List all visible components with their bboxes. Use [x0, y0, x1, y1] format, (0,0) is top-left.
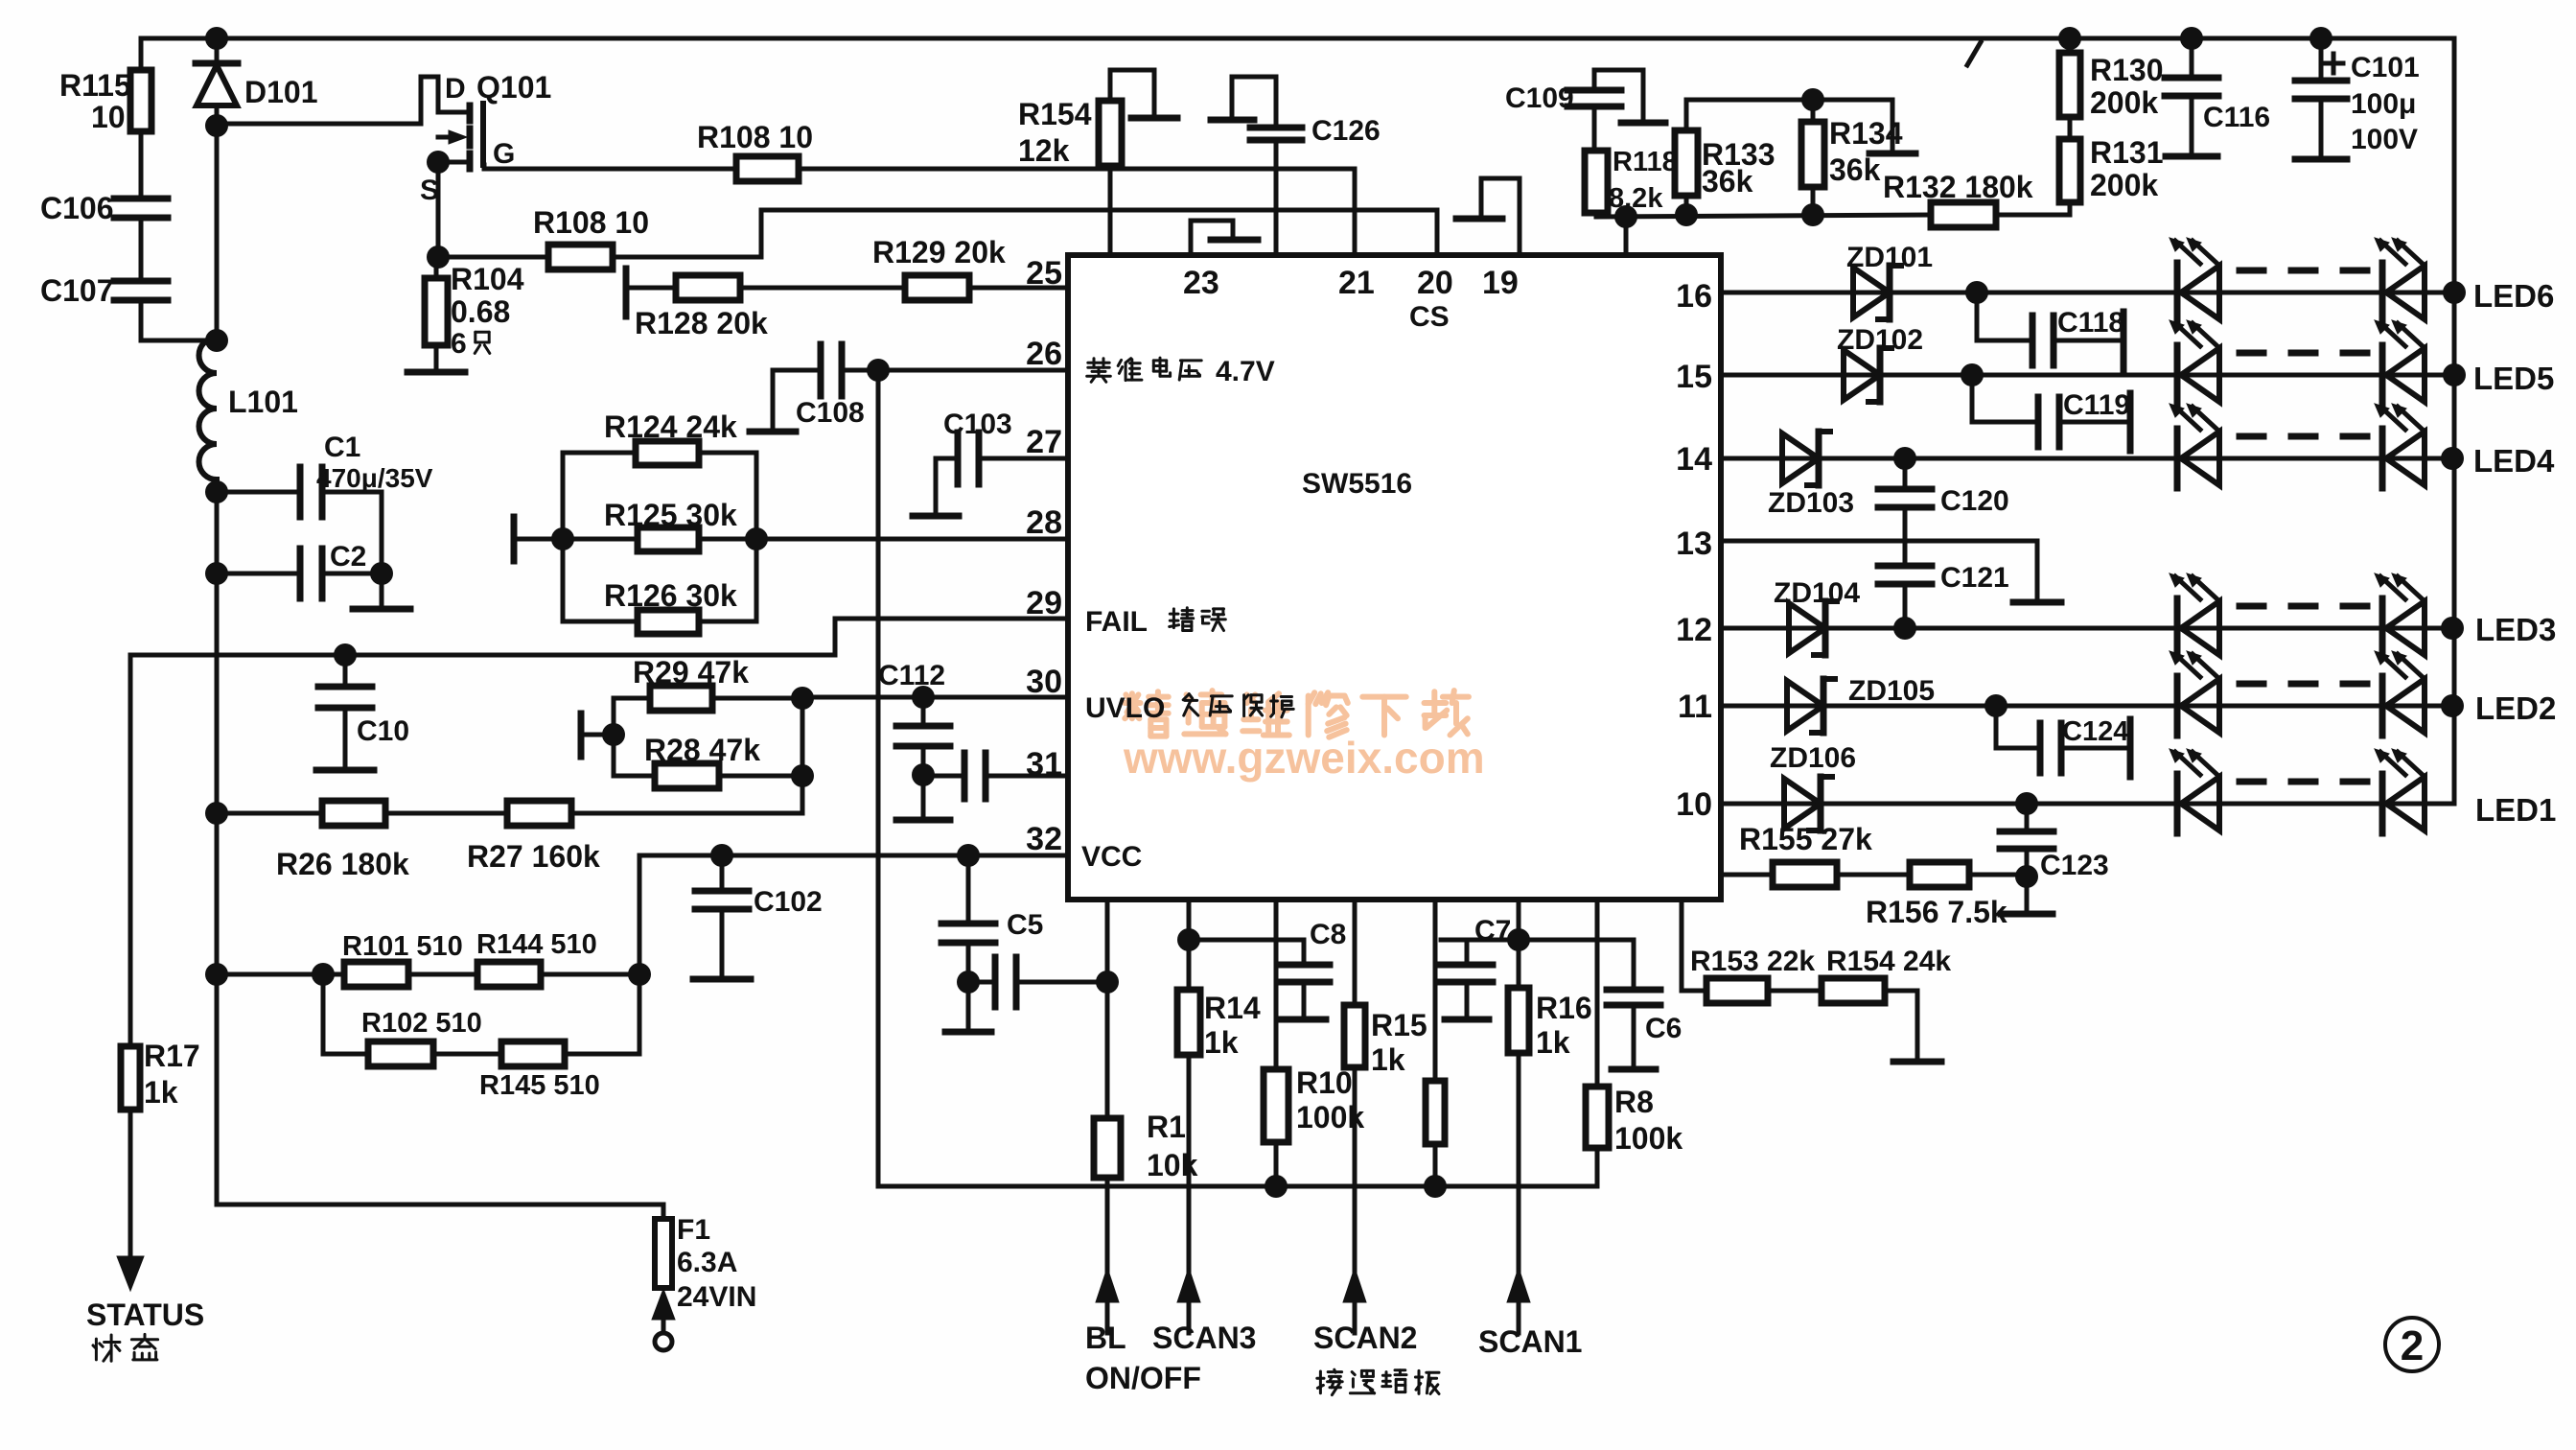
svg-text:C107: C107 [40, 273, 114, 308]
capacitor C8 [1189, 919, 1346, 1017]
resistor R115 [59, 38, 151, 199]
resistor R133 [1675, 100, 1775, 215]
capacitor C10 [318, 655, 409, 768]
pin number 25 [1026, 255, 1062, 292]
svg-text:36k: 36k [1829, 152, 1881, 187]
resistor R28 [614, 733, 802, 788]
wire R124-R126 right link [754, 453, 759, 621]
ground-bar below C103 [913, 513, 959, 520]
wire SCAN1 arrow [1507, 1053, 1530, 1333]
label BL ON/OFF [1085, 1321, 1201, 1395]
node C2 left junction [205, 562, 228, 585]
svg-text:LED5: LED5 [2473, 361, 2554, 396]
svg-text:G: G [493, 138, 515, 170]
node R130 top junction [2058, 27, 2081, 50]
capacitor C124 [1996, 706, 2130, 777]
svg-text:24VIN: 24VIN [677, 1281, 756, 1313]
svg-text:R124 24k: R124 24k [604, 409, 737, 444]
wire R101 row [217, 972, 344, 977]
wire pin 27 [979, 456, 1068, 461]
svg-text:R125 30k: R125 30k [604, 498, 737, 532]
svg-text:SCAN3: SCAN3 [1152, 1321, 1256, 1355]
zener ZD103 [1768, 432, 1854, 519]
svg-text:C118: C118 [2057, 307, 2124, 339]
capacitor C103 [936, 409, 1012, 514]
svg-text:BL: BL [1085, 1321, 1126, 1355]
wire R17 to STATUS arrow [117, 1110, 144, 1291]
node LED6 row junction at C118 [1965, 281, 1988, 304]
node LED3 bus junction [2441, 617, 2464, 640]
node C112 top junction [912, 686, 935, 709]
resistor R124 [563, 409, 756, 465]
svg-text:200k: 200k [2090, 168, 2158, 202]
terminal stub left of R28 [581, 713, 614, 757]
svg-text:SCAN2: SCAN2 [1313, 1321, 1417, 1355]
svg-text:R15: R15 [1371, 1008, 1427, 1042]
svg-text:R8: R8 [1614, 1085, 1654, 1119]
wire pin 28 [756, 537, 1068, 542]
resistor R126 [563, 578, 756, 634]
wire SCAN2 arrow [1343, 1067, 1366, 1333]
resistor R130 [2059, 38, 2164, 120]
svg-text:2: 2 [2401, 1322, 2424, 1369]
capacitor C7 [1441, 915, 1519, 1017]
label SCAN2 [1313, 1321, 1439, 1395]
wire C1-C2 right to ground [380, 492, 384, 607]
svg-text:CS: CS [1409, 301, 1450, 333]
label CS [1409, 301, 1450, 333]
dashed link LED3 [2239, 603, 2368, 610]
diode D101 [196, 38, 318, 340]
resistor R156 [1837, 862, 2027, 929]
svg-text:C103: C103 [943, 409, 1012, 440]
svg-text:R130: R130 [2090, 53, 2164, 87]
svg-text:C8: C8 [1310, 919, 1346, 950]
pin number 14 [1676, 441, 1712, 478]
node LED2 row junction at C124 [1984, 694, 2007, 717]
svg-text:21: 21 [1338, 265, 1375, 301]
wire R10 pin [1274, 900, 1279, 1069]
svg-text:C116: C116 [2203, 102, 2270, 133]
ground-bar below C123 [2001, 911, 2053, 918]
svg-text:SCAN1: SCAN1 [1478, 1324, 1582, 1359]
svg-text:10: 10 [1676, 786, 1712, 823]
svg-text:C121: C121 [1940, 562, 2009, 594]
svg-text:C120: C120 [1940, 485, 2009, 517]
LED string LED2 left [2170, 651, 2219, 736]
svg-text:20: 20 [1417, 265, 1453, 301]
dashed link LED1 [2239, 779, 2368, 785]
resistor R144 [408, 929, 639, 987]
LED string LED2 right [2375, 651, 2425, 736]
wire D101 to Q101 drain [217, 77, 467, 124]
svg-text:31: 31 [1026, 746, 1062, 783]
pin number 12 [1676, 612, 1712, 648]
node R144 right junction [628, 963, 651, 986]
svg-text:R131: R131 [2090, 135, 2164, 170]
svg-text:ZD105: ZD105 [1848, 675, 1935, 707]
ground-bar below C112 [896, 817, 950, 824]
LED string LED4 left [2170, 404, 2219, 488]
dashed link LED6 [2239, 268, 2368, 274]
svg-text:26: 26 [1026, 336, 1062, 372]
resistor R153 [1682, 900, 1815, 1003]
label UVLO [1085, 692, 1293, 724]
node R26 left junction [205, 802, 228, 825]
svg-text:R156 7.5k: R156 7.5k [1866, 895, 2007, 929]
svg-text:12: 12 [1676, 612, 1712, 648]
svg-text:R102 510: R102 510 [361, 1008, 482, 1039]
capacitor pin 31 coupling [923, 753, 1068, 799]
resistor R27 [385, 801, 802, 874]
node D101 cathode junction [205, 114, 228, 137]
ground-bar below R154 (lower) [1893, 1059, 1941, 1065]
wire pin 26 [842, 368, 1068, 373]
capacitor C106 [40, 191, 168, 281]
dashed link LED5 [2239, 350, 2368, 357]
svg-text:1k: 1k [1536, 1025, 1570, 1060]
resistor R132 [1883, 170, 2070, 227]
transistor Q101 [420, 70, 551, 206]
svg-text:470μ/35V: 470μ/35V [316, 463, 433, 493]
capacitor C1 [217, 432, 433, 517]
svg-text:19: 19 [1482, 265, 1519, 301]
label SCAN3 [1152, 1321, 1256, 1355]
svg-text:C108: C108 [796, 397, 865, 429]
node L101 top junction [205, 329, 228, 352]
svg-text:ZD103: ZD103 [1768, 487, 1854, 519]
wire VCC net (pin 32) [639, 855, 1068, 974]
pin number 30 [1026, 664, 1062, 700]
wire mid resistor pin [1433, 900, 1438, 1081]
ground-bar below C102 [693, 976, 751, 983]
svg-text:C5: C5 [1007, 909, 1043, 941]
svg-text:C109: C109 [1505, 82, 1574, 114]
ground-bar pin 13 [2013, 599, 2061, 606]
capacitor C6 [1519, 940, 1682, 1067]
pin number 26 [1026, 336, 1062, 372]
svg-text:R28 47k: R28 47k [644, 733, 760, 767]
resistor R15 [1344, 1005, 1427, 1077]
wire pin 25 [969, 286, 1068, 291]
svg-text:R14: R14 [1204, 991, 1261, 1025]
svg-text:R101 510: R101 510 [342, 931, 463, 962]
pin number 28 [1026, 504, 1062, 541]
label LED1 [2475, 792, 2556, 828]
svg-text:0.68: 0.68 [451, 294, 510, 329]
svg-text:R154: R154 [1018, 97, 1092, 131]
svg-text:R155 27k: R155 27k [1739, 822, 1872, 856]
LED string LED6 left [2170, 238, 2219, 322]
svg-text:8.2k: 8.2k [1609, 183, 1663, 214]
zener ZD106 [1770, 742, 1856, 830]
svg-text:LED3: LED3 [2475, 612, 2556, 647]
svg-text:12k: 12k [1018, 133, 1070, 168]
svg-text:R16: R16 [1536, 991, 1592, 1025]
wire pin 13 to ground [1721, 541, 2037, 600]
resistor R10 [1264, 1065, 1364, 1186]
svg-text:R115: R115 [59, 68, 131, 103]
svg-text:6: 6 [451, 328, 467, 360]
svg-text:R108 10: R108 10 [533, 205, 649, 240]
svg-text:F1: F1 [677, 1214, 710, 1246]
node Q101 source junction [427, 151, 450, 174]
node C2 right junction [370, 562, 393, 585]
wire pin 15 / LED5 row [1721, 373, 2454, 378]
svg-text:4.7V: 4.7V [1216, 356, 1275, 387]
ground-bar below C5 [945, 1029, 991, 1036]
wire right LED bus [2452, 38, 2457, 804]
svg-text:VCC: VCC [1081, 841, 1142, 873]
node R101 bus junction [205, 963, 228, 986]
capacitor C109 [1505, 70, 1665, 151]
svg-text:R129 20k: R129 20k [872, 235, 1006, 269]
zener ZD102 [1837, 324, 1923, 402]
LED string LED6 right [2375, 238, 2425, 322]
pin number 19 [1482, 265, 1519, 301]
node C102 junction [710, 844, 733, 867]
terminal stub pin 23 [1191, 221, 1258, 255]
zener ZD104 [1774, 577, 1860, 655]
node LED4 bus junction [2441, 447, 2464, 470]
node C123 bottom junction [2015, 865, 2038, 888]
svg-text:1k: 1k [1371, 1042, 1405, 1077]
svg-text:C112: C112 [878, 660, 945, 691]
pin number 23 [1183, 265, 1219, 301]
node LED2 bus junction [2441, 694, 2464, 717]
resistor R102 [323, 974, 482, 1066]
svg-text:C119: C119 [2063, 389, 2130, 421]
svg-text:R126 30k: R126 30k [604, 578, 737, 613]
node C112 bottom junction [912, 763, 935, 786]
wire top supply bus [141, 36, 2454, 41]
capacitor C116 [2165, 38, 2270, 154]
wire center vertical bus [876, 370, 881, 1186]
ground-bar below C6 [1612, 1066, 1656, 1073]
svg-text:R144 510: R144 510 [476, 929, 597, 960]
label SCAN1 [1478, 1324, 1582, 1359]
svg-text:C123: C123 [2040, 850, 2109, 881]
svg-text:C6: C6 [1645, 1013, 1682, 1044]
node R101 left junction [312, 963, 335, 986]
wire SCAN1 pin [1517, 900, 1521, 988]
resistor R101 [342, 931, 463, 987]
svg-text:C126: C126 [1311, 115, 1381, 147]
svg-text:15: 15 [1676, 359, 1712, 395]
svg-text:ZD101: ZD101 [1846, 242, 1933, 273]
resistor R14 [1177, 990, 1261, 1060]
node LED6 bus junction [2443, 281, 2466, 304]
label LED4 [2473, 443, 2555, 479]
LED string LED1 right [2375, 749, 2425, 833]
wire left bus down [217, 492, 663, 1204]
node C116 top junction [2180, 27, 2203, 50]
node R118 bottom junction [1614, 205, 1637, 228]
capacitor C119 [1972, 375, 2130, 451]
resistor R8 [1586, 1085, 1683, 1186]
wire R124-R126 left link [561, 453, 566, 621]
svg-text:www.gzweix.com: www.gzweix.com [1123, 733, 1485, 783]
label FAIL [1085, 606, 1225, 638]
svg-text:16: 16 [1676, 278, 1712, 315]
svg-text:C101: C101 [2351, 52, 2420, 83]
pin number 20 [1417, 265, 1453, 301]
svg-text:LED4: LED4 [2473, 443, 2555, 479]
svg-text:SW5516: SW5516 [1302, 468, 1412, 500]
label VCC [1081, 841, 1142, 873]
resistor R118 [1585, 147, 1678, 217]
svg-text:36k: 36k [1702, 164, 1753, 199]
node R125 left junction [551, 527, 574, 550]
svg-text:R104: R104 [451, 262, 524, 296]
svg-text:11: 11 [1678, 689, 1712, 725]
svg-text:R27 160k: R27 160k [467, 839, 600, 874]
wire pin 10 / LED1 row [1721, 802, 2454, 807]
wire pin 16 / LED6 row [1721, 291, 2454, 295]
svg-text:D: D [445, 73, 466, 105]
dashed link LED4 [2239, 433, 2368, 440]
node C5 lower junction [957, 971, 980, 994]
node R29 right junction [791, 687, 814, 710]
terminal stub left of R128 [626, 269, 676, 316]
node C1 left junction [205, 480, 228, 503]
svg-text:200k: 200k [2090, 85, 2158, 120]
svg-text:ZD102: ZD102 [1837, 324, 1923, 356]
svg-text:LED6: LED6 [2473, 278, 2554, 314]
pin number 16 [1676, 278, 1712, 315]
pin number 13 [1676, 526, 1712, 562]
capacitor C5 [941, 855, 1043, 1030]
wire BL arrow [1096, 1186, 1119, 1333]
LED string LED4 right [2375, 404, 2425, 488]
svg-text:23: 23 [1183, 265, 1219, 301]
pin number 32 [1026, 821, 1062, 857]
node R28-R29 input junction [602, 723, 625, 746]
node bus junction mid resistor [1424, 1175, 1447, 1198]
ground below C2 [353, 606, 410, 613]
wire SCAN3 pin [1187, 900, 1192, 990]
resistor R26 [217, 801, 409, 881]
resistor R125 [563, 498, 756, 551]
svg-text:R26 180k: R26 180k [276, 847, 409, 881]
wire pin 30 (UVLO) [802, 695, 1068, 700]
wire bottom ground bus [878, 1184, 1597, 1189]
LED string LED5 right [2375, 320, 2425, 405]
resistor R145 [433, 974, 639, 1101]
resistor R108 (gate) [697, 120, 813, 181]
ground below R104 [407, 369, 465, 376]
wire pin 14 / LED4 row [1721, 456, 2454, 461]
node top bus junction at D101 [205, 27, 228, 50]
fuse F1 [652, 1204, 756, 1350]
svg-text:28: 28 [1026, 504, 1062, 541]
label reference voltage 4.7V [1087, 356, 1275, 387]
ground-bar below C116 [2166, 153, 2217, 160]
svg-text:6.3A: 6.3A [677, 1247, 737, 1278]
ground-bar below C108 [750, 429, 796, 435]
svg-text:1k: 1k [144, 1075, 178, 1110]
resistor R17 [121, 1039, 200, 1110]
wire BL pin [1105, 900, 1110, 1118]
page number 2 circled [2385, 1318, 2439, 1371]
watermark text [1123, 690, 1485, 783]
node C10 junction [334, 643, 357, 667]
capacitor C101 [2295, 38, 2420, 157]
svg-text:100μ: 100μ [2351, 88, 2416, 120]
svg-text:STATUS: STATUS [86, 1298, 204, 1332]
resistor R128 [635, 275, 768, 340]
ground-bar below C8 [1282, 1017, 1326, 1023]
svg-text:R1: R1 [1147, 1110, 1186, 1144]
svg-text:27: 27 [1026, 424, 1062, 460]
resistor R134 [1801, 100, 1903, 215]
node SCAN1 junction at C7 [1507, 928, 1530, 951]
resistor R1 [1094, 1110, 1198, 1186]
LED string LED1 left [2170, 749, 2219, 833]
svg-text:ZD106: ZD106 [1770, 742, 1856, 774]
capacitor C126 [1211, 77, 1381, 255]
svg-text:ON/OFF: ON/OFF [1085, 1361, 1201, 1395]
svg-text:R134: R134 [1829, 116, 1903, 151]
node LED5 bus junction [2443, 363, 2466, 386]
label SW5516 [1302, 468, 1412, 500]
svg-text:32: 32 [1026, 821, 1062, 857]
node LED4 row junction at C120 [1893, 447, 1916, 470]
wire R104 junction to pin 20 [438, 210, 1437, 257]
resistor R104 [425, 257, 524, 370]
svg-text:14: 14 [1676, 441, 1712, 478]
resistor R154 (lower) [1768, 946, 1951, 1059]
svg-text:29: 29 [1026, 585, 1062, 621]
svg-text:R118: R118 [1613, 147, 1678, 177]
svg-text:Q101: Q101 [476, 70, 551, 105]
LED string LED3 left [2170, 573, 2219, 658]
capacitor C102 [695, 855, 823, 977]
node C101 top junction [2309, 27, 2332, 50]
svg-text:R17: R17 [144, 1039, 200, 1073]
node C5 top junction [957, 844, 980, 867]
label LED2 [2475, 690, 2556, 726]
svg-text:L101: L101 [228, 385, 298, 419]
resistor R29 [614, 655, 802, 711]
svg-text:LED2: LED2 [2475, 690, 2556, 726]
svg-text:100V: 100V [2351, 124, 2418, 155]
capacitor C107 [40, 273, 217, 340]
zener ZD101 [1846, 242, 1933, 319]
wire FAIL net (pin 29) [130, 619, 1068, 655]
wire pin 11 / LED2 row [1721, 704, 2454, 709]
svg-text:R153 22k: R153 22k [1690, 946, 1815, 977]
svg-text:30: 30 [1026, 664, 1062, 700]
node SCAN3 junction at C8 [1177, 928, 1200, 951]
svg-text:R128 20k: R128 20k [635, 306, 768, 340]
wire R28-R29 right link [801, 698, 805, 813]
svg-text:D101: D101 [244, 75, 318, 109]
capacitor C2 [217, 541, 382, 598]
svg-text:C124: C124 [2062, 716, 2128, 747]
svg-text:C7: C7 [1474, 915, 1511, 947]
ground-bar below C7 [1445, 1017, 1489, 1023]
pin number 15 [1676, 359, 1712, 395]
node R28 right junction [791, 764, 814, 787]
capacitor C108 [773, 344, 865, 430]
svg-text:C106: C106 [40, 191, 114, 225]
svg-text:10: 10 [91, 100, 126, 134]
label LED5 [2473, 361, 2554, 396]
wire pin 12 / LED3 row [1721, 626, 2454, 631]
node LED5 row junction at C119 [1961, 363, 1984, 386]
svg-text:1k: 1k [1204, 1025, 1239, 1060]
